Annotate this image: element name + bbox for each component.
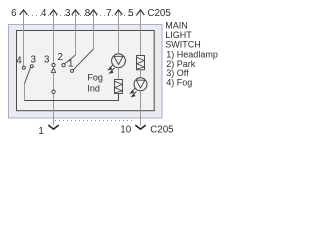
- wafer1 contact position 3 circle: [30, 65, 33, 68]
- pin 8 arrow: [90, 10, 98, 15]
- wafer2 pole triangle: [51, 68, 55, 73]
- connector C205 top dashed line: [28, 15, 137, 17]
- switch body inner box: [17, 31, 155, 111]
- svg-text:3: 3: [65, 8, 71, 19]
- resistor R2 zigzag: [137, 57, 144, 69]
- resistor R1 zigzag: [115, 81, 122, 93]
- lamp L1 emission arrow a: [109, 65, 113, 69]
- svg-text:SWITCH: SWITCH: [165, 39, 201, 49]
- svg-text:C205: C205: [147, 8, 171, 19]
- wire diagonal pin3 to contact 2: [65, 55, 76, 64]
- pin 10 bottom arrow: [135, 125, 145, 129]
- wafer1 contact position 4 circle: [22, 66, 25, 69]
- pin 3 arrow: [72, 10, 80, 15]
- lamp L2 circle: [134, 78, 147, 91]
- wafer1 switch blade: [25, 68, 31, 84]
- wire pin 7: [118, 10, 120, 54]
- wafer2 contact position 3 circle: [52, 64, 55, 67]
- switch body outer box: [9, 25, 163, 119]
- bus wire from wafer1 pole to lamp branch: [25, 93, 119, 100]
- lamp L2 triangle: [136, 80, 145, 88]
- wire resistor R2 to lamp L2: [140, 70, 142, 78]
- pin 5 arrow: [137, 10, 145, 15]
- svg-text:3: 3: [30, 54, 36, 65]
- wire pin 5: [140, 10, 142, 55]
- svg-text:5: 5: [128, 8, 134, 19]
- svg-text:8: 8: [85, 8, 91, 19]
- junction circle on pole wire: [52, 90, 55, 93]
- lamp L2 emission arrow a: [131, 88, 135, 92]
- svg-text:4: 4: [41, 8, 47, 19]
- svg-text:1: 1: [68, 59, 73, 70]
- svg-text:6: 6: [11, 8, 17, 19]
- lamp L1 emission arrow b: [111, 68, 115, 72]
- lamp L1 fog indicator circle: [112, 54, 126, 68]
- wire lamp L2 to bottom pin 10: [140, 91, 142, 125]
- pin 1 bottom arrow: [48, 125, 58, 129]
- svg-text:Fog: Fog: [87, 72, 103, 82]
- svg-text:4) Fog: 4) Fog: [166, 77, 192, 87]
- wire pin 4: [53, 10, 55, 63]
- pin 4 arrow: [50, 10, 58, 15]
- svg-text:10: 10: [120, 124, 131, 135]
- wire pin 3: [75, 10, 77, 55]
- connector C205 bottom dashed line: [55, 120, 135, 122]
- svg-text:2: 2: [58, 52, 63, 63]
- pin 6 arrow: [20, 10, 28, 15]
- svg-text:1: 1: [38, 126, 43, 137]
- svg-text:Ind: Ind: [87, 83, 100, 93]
- pin 7 arrow: [115, 10, 123, 15]
- lamp L2 emission arrow b: [133, 92, 137, 96]
- resistor R1 box: [115, 80, 123, 94]
- svg-text:4: 4: [16, 56, 22, 67]
- wire pin 8: [93, 10, 95, 49]
- wire lamp L1 to resistor R1: [118, 68, 120, 80]
- wafer1 pole wire: [24, 84, 26, 101]
- wire pin5 resistor R2 box: [137, 56, 145, 70]
- wire pole to bottom pin 1: [53, 72, 55, 125]
- wafer2 contact position 2 circle: [62, 64, 65, 67]
- svg-text:7: 7: [106, 8, 111, 19]
- wafer2 contact position 1 circle: [71, 69, 74, 72]
- svg-text:3: 3: [44, 55, 50, 66]
- svg-text:C205: C205: [150, 125, 174, 136]
- wire pin 6: [23, 10, 25, 66]
- lamp L1 triangle: [114, 56, 123, 64]
- wire diagonal pin8 to contact 1: [73, 49, 93, 70]
